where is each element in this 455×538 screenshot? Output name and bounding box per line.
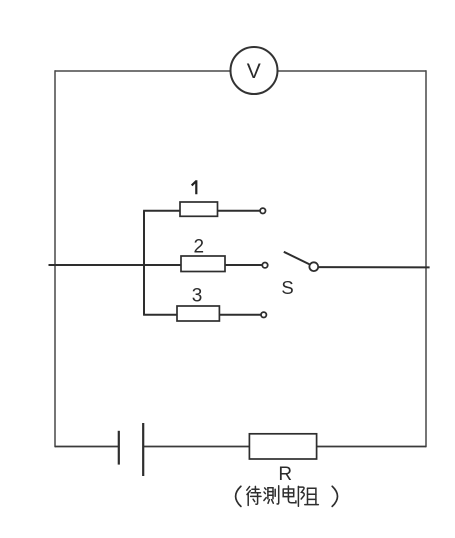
wire: row 3 branch bbox=[143, 314, 261, 316]
svg-text:2: 2 bbox=[194, 237, 205, 258]
svg-text:S: S bbox=[281, 277, 293, 298]
wire: outer loop left vertical bbox=[54, 70, 56, 447]
node: terminal contact 2 bbox=[262, 263, 267, 268]
测 bbox=[264, 486, 279, 504]
battery: short plate (negative) bbox=[118, 431, 120, 465]
switch S bbox=[281, 252, 318, 298]
阻 bbox=[298, 486, 318, 506]
（ bbox=[236, 486, 241, 506]
wire: outer loop top bbox=[55, 70, 426, 72]
resistor 2 bbox=[181, 237, 225, 272]
resistor 1 bbox=[180, 180, 218, 216]
待 bbox=[247, 486, 261, 505]
） bbox=[332, 486, 337, 506]
label: （待测电阻） hand-drawn CJK annotation bbox=[236, 486, 338, 507]
node: terminal contact 3 bbox=[261, 312, 266, 317]
resistor R (device under test) bbox=[249, 434, 316, 485]
wire: outer loop right vertical bbox=[425, 70, 427, 447]
node: terminal contact 1 bbox=[260, 208, 265, 213]
wire: middle horizontal right segment from switch bbox=[318, 266, 429, 268]
svg-text:R: R bbox=[278, 464, 292, 485]
battery: long plate (positive) bbox=[142, 423, 144, 476]
voltmeter V bbox=[231, 47, 278, 94]
电 bbox=[283, 486, 296, 503]
svg-text:V: V bbox=[247, 60, 261, 83]
wire: parallel bus vertical bbox=[143, 211, 145, 315]
wire: middle horizontal left segment bbox=[49, 264, 263, 266]
wire: bottom left segment to battery bbox=[55, 446, 119, 448]
svg-text:3: 3 bbox=[192, 286, 203, 307]
wire: bottom right segment from battery through R to right vertical bbox=[143, 446, 426, 448]
resistor 3 bbox=[177, 286, 219, 321]
wire: row 1 branch bbox=[143, 210, 260, 212]
